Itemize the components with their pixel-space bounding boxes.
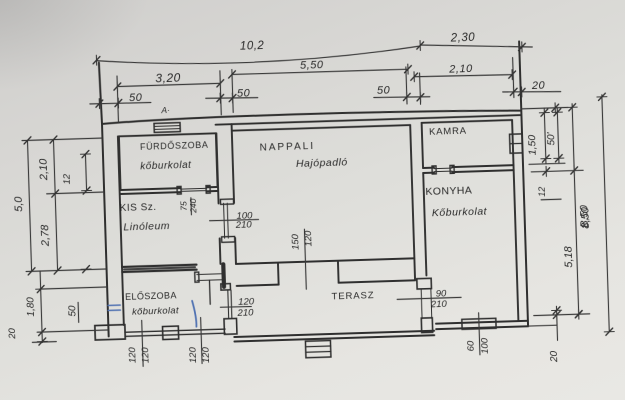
svg-text:3,20: 3,20 [155,71,181,86]
svg-text:TERASZ: TERASZ [331,290,374,302]
svg-text:120: 120 [188,346,200,363]
svg-text:12: 12 [62,173,73,185]
svg-text:120: 120 [140,346,152,363]
svg-text:2,10: 2,10 [448,63,473,76]
svg-text:120: 120 [127,346,139,363]
svg-text:A·: A· [160,105,170,115]
svg-text:1,80: 1,80 [25,297,37,317]
svg-text:60: 60 [465,340,476,352]
svg-text:210: 210 [236,307,254,319]
svg-text:50: 50 [129,92,143,104]
svg-text:Hajópadló: Hajópadló [296,156,348,170]
svg-text:FÜRDŐSZOBA: FÜRDŐSZOBA [140,140,209,152]
svg-text:5,0: 5,0 [13,195,26,212]
svg-text:ELŐSZOBA: ELŐSZOBA [125,290,177,302]
svg-text:50': 50' [546,131,557,145]
svg-text:50: 50 [67,305,78,317]
svg-text:Linóleum: Linóleum [123,220,170,233]
svg-text:5,18: 5,18 [563,245,576,268]
svg-text:1,50: 1,50 [526,134,539,155]
svg-text:B,50: B,50 [578,204,591,228]
svg-text:kőburkolat: kőburkolat [132,305,179,317]
svg-text:Kőburkolat: Kőburkolat [432,205,488,219]
svg-text:120: 120 [303,230,315,247]
svg-text:50: 50 [377,84,391,96]
svg-text:2,78: 2,78 [39,224,52,248]
svg-text:120: 120 [201,346,213,363]
svg-text:12: 12 [537,187,547,197]
svg-text:2,30: 2,30 [450,32,476,45]
svg-text:240: 240 [188,198,198,214]
svg-text:210: 210 [430,299,448,311]
svg-text:100: 100 [479,337,491,354]
svg-text:20: 20 [7,327,18,340]
svg-text:10,2: 10,2 [240,40,265,53]
svg-text:20: 20 [531,80,546,92]
svg-text:20: 20 [549,350,560,363]
svg-text:120: 120 [238,296,255,308]
svg-text:210: 210 [235,219,253,231]
svg-text:kőburkolat: kőburkolat [140,160,192,173]
svg-text:KAMRA: KAMRA [429,126,467,138]
svg-text:NAPPALI: NAPPALI [259,141,315,154]
svg-text:KONYHA: KONYHA [425,184,472,197]
svg-text:5,50: 5,50 [300,59,324,72]
svg-text:150: 150 [290,233,302,250]
svg-text:2,10: 2,10 [38,158,51,182]
svg-text:KIS Sz.: KIS Sz. [120,202,157,214]
svg-text:50: 50 [237,87,251,99]
